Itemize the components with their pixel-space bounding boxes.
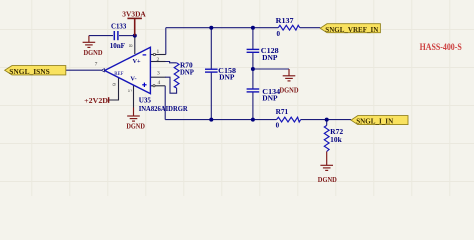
svg-text:3V3DA: 3V3DA (122, 9, 146, 18)
wire bottom rail (165, 119, 276, 121)
pin 7 apex glyph (101, 69, 104, 72)
wire C134 top lead (252, 69, 254, 89)
node bottom rail / C158 (209, 118, 213, 122)
port SNGL_VREF_IN (320, 24, 380, 33)
capacitor C134 (247, 89, 260, 92)
power port 3V3DA (127, 18, 141, 35)
svg-text:5: 5 (126, 89, 132, 92)
op-amp inverting input mark (143, 54, 147, 56)
resistor R71 (277, 117, 301, 122)
wire C133 to node A (119, 35, 135, 37)
pin 4 circle (153, 85, 155, 87)
pin 8 (134, 36, 136, 54)
capacitor C133 (114, 31, 118, 40)
svg-text:8: 8 (127, 44, 133, 47)
resistor R137 (278, 25, 300, 30)
wire C158 top lead (210, 28, 212, 69)
svg-text:R72: R72 (330, 127, 343, 136)
svg-text:REF: REF (114, 72, 123, 77)
wire R71 to port (301, 119, 351, 121)
ground DGND (op-amp pin 5) (127, 108, 140, 122)
node bottom rail / R72 (325, 118, 329, 122)
svg-text:V+: V+ (133, 58, 142, 65)
wire pin4 to bottom rail (164, 86, 166, 120)
svg-text:2: 2 (157, 57, 160, 63)
svg-text:R71: R71 (276, 107, 289, 116)
svg-text:10nF: 10nF (110, 42, 126, 50)
ground DGND (C128/C134 node) (283, 69, 296, 81)
wire R137 to port (300, 27, 321, 29)
svg-text:DGND: DGND (318, 176, 337, 184)
svg-text:+2V2D: +2V2D (84, 96, 108, 105)
svg-text:DGND: DGND (126, 123, 144, 131)
wire pin1 to top rail (165, 28, 167, 55)
wire SNGL_ISNS to op-amp pin 7 (66, 69, 101, 71)
op-amp pins (dark) (109, 36, 166, 108)
svg-text:3: 3 (157, 71, 160, 77)
ground DGND (R72) (320, 152, 333, 171)
node mid C128/C134/DGND (251, 67, 255, 71)
capacitor C158 (205, 69, 218, 72)
wire top rail (166, 27, 278, 29)
pin 1 (151, 54, 166, 56)
svg-text:10k: 10k (330, 136, 342, 144)
svg-text:1: 1 (157, 49, 160, 55)
pin 2 (151, 61, 166, 63)
svg-text:C133: C133 (111, 22, 127, 31)
pin 4 (151, 85, 165, 87)
port SNGL_ISNS (5, 66, 66, 75)
svg-text:DNP: DNP (180, 69, 194, 77)
wire pin2 to R70 (165, 62, 177, 63)
resistor R72 (324, 125, 329, 151)
svg-text:0: 0 (276, 122, 280, 130)
wires (66, 28, 351, 126)
ground DGND (C133) (83, 36, 96, 48)
wire C128 bottom lead (252, 52, 254, 69)
svg-text:SNGL_VREF_IN: SNGL_VREF_IN (325, 25, 378, 34)
svg-text:V-: V- (130, 76, 136, 83)
svg-text:DGND: DGND (84, 49, 103, 57)
junction dots (133, 26, 329, 122)
svg-text:SNGL_ISNS: SNGL_ISNS (9, 67, 50, 76)
node A (C133/3V3DA/pin8) (133, 34, 137, 38)
node top rail / C158 (209, 26, 213, 30)
wire C134 bottom lead (252, 92, 254, 120)
pin 1 circle (153, 53, 155, 55)
svg-text:R137: R137 (276, 16, 294, 25)
wire pin3 to R70 bottom (165, 77, 177, 93)
svg-text:7: 7 (95, 62, 98, 68)
node top rail / C128 (251, 26, 255, 30)
pin 5 (133, 85, 135, 107)
op-amp U35 triangle body (105, 47, 151, 93)
wire DGND to C133 (89, 35, 113, 37)
svg-text:6: 6 (111, 83, 117, 86)
svg-text:DNP: DNP (262, 54, 278, 62)
op-amp non-inverting input mark (142, 83, 146, 87)
wire R72 top lead (326, 120, 328, 126)
node bottom rail / C134 (251, 118, 255, 122)
pin 3 (151, 76, 166, 78)
wire node to DGND (253, 68, 289, 70)
resistor R70 (174, 63, 179, 88)
power port +2V2D (108, 97, 110, 103)
svg-text:DNP: DNP (262, 95, 278, 103)
pin 6 (109, 78, 119, 100)
wire C158 bottom lead (210, 72, 212, 119)
svg-text:INA826AIDRGR: INA826AIDRGR (139, 104, 189, 113)
wire C128 top lead (252, 28, 254, 50)
svg-text:HASS-400-S: HASS-400-S (420, 42, 462, 52)
port SNGL_I_IN (351, 116, 408, 125)
svg-text:DNP: DNP (219, 74, 235, 82)
svg-text:4: 4 (158, 80, 161, 86)
svg-text:DGND: DGND (280, 87, 299, 95)
svg-text:0: 0 (277, 30, 281, 38)
capacitor C128 (247, 49, 260, 52)
svg-text:SNGL_I_IN: SNGL_I_IN (356, 116, 393, 125)
